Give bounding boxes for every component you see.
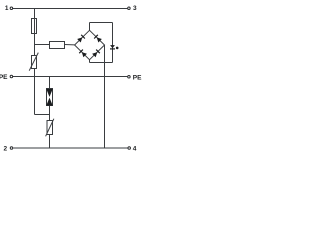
wire top horizontal of bridge DC loop xyxy=(90,22,113,24)
svg-text:4: 4 xyxy=(133,145,137,152)
wire varistor V2 to bottom line xyxy=(49,135,51,149)
wire node A to resistor R xyxy=(35,44,50,46)
svg-text:PE: PE xyxy=(0,74,8,81)
wire bridge right vertex down to bottom line xyxy=(104,45,106,148)
svg-text:1: 1 xyxy=(5,5,9,12)
wire PE line xyxy=(13,76,127,78)
resistor R1 xyxy=(50,42,65,49)
diode bridge diamond outline xyxy=(75,30,105,59)
fuse F1 xyxy=(32,19,37,34)
bridge diode D3 (left-bottom edge) xyxy=(79,50,87,58)
wire resistor R to bridge left vertex xyxy=(65,44,75,46)
svg-text:2: 2 xyxy=(4,145,8,152)
suppressor (bidirectional TVS) box with triangles xyxy=(46,89,52,106)
wire PE line to suppressor top xyxy=(49,77,51,89)
wire top line terminals 1-3 xyxy=(13,8,127,10)
wire horizontal branch to node B xyxy=(35,114,50,116)
terminal 3 circle xyxy=(128,7,131,10)
varistor V2 xyxy=(46,119,54,137)
wire varistor V1 to PE line xyxy=(34,69,36,77)
wire PE line down left branch xyxy=(34,77,36,115)
wire bottom line terminals 2-4 xyxy=(13,147,127,149)
terminal 1 circle xyxy=(10,7,13,10)
wire fuse to varistor V1 through node A xyxy=(34,34,36,56)
terminal 2 circle xyxy=(10,147,13,150)
wire stub bridge top vertex up xyxy=(89,23,91,31)
wire suppressor diode D5 vertical xyxy=(112,23,114,63)
wire vertical drop from top line to fuse xyxy=(34,9,36,19)
wire through fuse xyxy=(34,19,36,34)
varistor V1 xyxy=(29,53,38,71)
bridge diode D4 (right-bottom edge) xyxy=(92,50,100,58)
suppressor diode D5 symbol across bridge xyxy=(110,45,118,49)
wire suppressor bottom through node B to varistor V2 xyxy=(49,106,51,121)
svg-text:PE: PE xyxy=(133,74,142,81)
terminal PE right circle xyxy=(128,75,131,78)
wire stub bridge bottom vertex down xyxy=(89,60,91,63)
terminal PE left circle xyxy=(10,75,13,78)
svg-text:3: 3 xyxy=(133,5,137,12)
bridge diode D2 (right-top edge) xyxy=(94,35,102,43)
wire bottom horizontal of bridge DC loop xyxy=(90,62,113,64)
terminal 4 circle xyxy=(128,147,131,150)
bridge diode D1 (left-top edge) xyxy=(77,35,85,43)
